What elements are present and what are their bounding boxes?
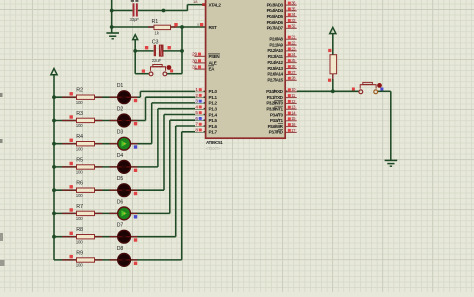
- svg-text:XTAL2: XTAL2: [209, 3, 222, 8]
- svg-text:P3.3/INT1: P3.3/INT1: [266, 107, 283, 112]
- svg-text:P0.5/AD5: P0.5/AD5: [267, 14, 284, 19]
- svg-text:P2.0/A8: P2.0/A8: [269, 37, 283, 42]
- svg-text:P3.0/RXD: P3.0/RXD: [266, 89, 284, 94]
- svg-text:R8: R8: [76, 227, 83, 233]
- svg-text:P1.4: P1.4: [209, 112, 218, 117]
- svg-text:P1.2: P1.2: [209, 101, 218, 106]
- svg-text:100: 100: [76, 146, 83, 151]
- svg-text:P2.7/A15: P2.7/A15: [267, 78, 283, 83]
- svg-text:100: 100: [76, 123, 83, 128]
- svg-text:P3.5/T1: P3.5/T1: [270, 118, 284, 123]
- svg-text:R9: R9: [76, 250, 83, 256]
- svg-text:P0.3/AD3: P0.3/AD3: [267, 2, 284, 7]
- svg-text:D8: D8: [117, 246, 124, 252]
- svg-text:R1: R1: [152, 19, 159, 25]
- svg-text:18: 18: [193, 0, 198, 4]
- svg-text:P1.1: P1.1: [209, 95, 218, 100]
- svg-text:P1.0: P1.0: [209, 89, 218, 94]
- svg-text:100: 100: [76, 216, 83, 221]
- svg-text:100: 100: [76, 193, 83, 198]
- svg-text:R6: R6: [76, 181, 83, 187]
- svg-text:D2: D2: [117, 107, 124, 113]
- svg-text:D5: D5: [117, 176, 124, 182]
- svg-text:P1.3: P1.3: [209, 107, 218, 112]
- svg-text:P1.7: P1.7: [209, 130, 218, 135]
- svg-text:R5: R5: [76, 157, 83, 163]
- svg-text:R2: R2: [76, 88, 83, 94]
- svg-text:100: 100: [76, 170, 83, 175]
- svg-text:31: 31: [192, 65, 197, 71]
- svg-text:P2.6/A14: P2.6/A14: [267, 72, 283, 77]
- svg-text:D3: D3: [117, 130, 124, 136]
- svg-text:P0.7/AD7: P0.7/AD7: [267, 26, 284, 31]
- svg-text:P3.1/TXD: P3.1/TXD: [267, 95, 284, 100]
- svg-text:P2.5/A13: P2.5/A13: [267, 66, 283, 71]
- svg-text:R4: R4: [76, 134, 83, 140]
- svg-text:22uF: 22uF: [152, 58, 162, 63]
- svg-text:P1.6: P1.6: [209, 124, 218, 129]
- svg-text:P2.2/A10: P2.2/A10: [267, 48, 283, 53]
- svg-text:29: 29: [192, 52, 197, 58]
- svg-text:<TEXT>: <TEXT>: [206, 146, 222, 151]
- svg-text:D1: D1: [117, 83, 124, 89]
- svg-text:P3.7/RD: P3.7/RD: [269, 130, 284, 135]
- svg-text:D4: D4: [117, 153, 124, 159]
- svg-text:ALE: ALE: [209, 60, 217, 65]
- svg-text:33pF: 33pF: [130, 17, 140, 22]
- svg-text:P3.2/INT0: P3.2/INT0: [266, 101, 283, 106]
- svg-text:P1.5: P1.5: [209, 118, 218, 123]
- svg-text:P2.4/A12: P2.4/A12: [267, 60, 283, 65]
- svg-text:P2.3/A11: P2.3/A11: [268, 54, 284, 59]
- svg-text:100: 100: [76, 239, 83, 244]
- svg-text:D6: D6: [117, 199, 124, 205]
- svg-text:100: 100: [76, 100, 83, 105]
- svg-text:P0.6/AD6: P0.6/AD6: [267, 20, 284, 25]
- svg-text:P3.4/T0: P3.4/T0: [270, 112, 284, 117]
- svg-text:100: 100: [76, 263, 83, 268]
- svg-text:D7: D7: [117, 223, 124, 229]
- svg-text:R7: R7: [76, 204, 83, 210]
- svg-text:C3: C3: [152, 40, 159, 46]
- svg-text:AT89C51: AT89C51: [206, 140, 223, 145]
- svg-text:RST: RST: [209, 25, 217, 30]
- svg-text:PSEN: PSEN: [209, 54, 221, 59]
- svg-text:R3: R3: [76, 111, 83, 117]
- svg-text:30: 30: [192, 58, 197, 64]
- svg-text:P2.1/A9: P2.1/A9: [269, 42, 283, 47]
- svg-text:P3.6/WR: P3.6/WR: [268, 124, 284, 129]
- svg-text:P0.4/AD4: P0.4/AD4: [267, 8, 284, 13]
